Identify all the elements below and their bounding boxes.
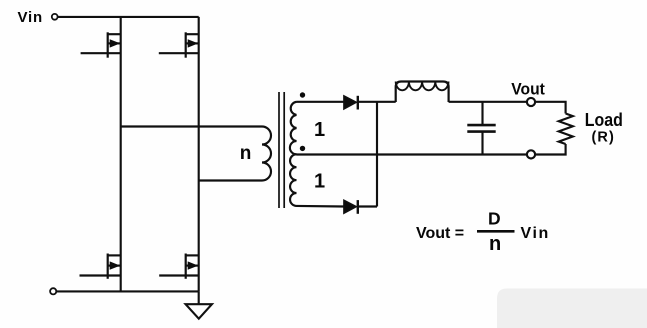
wire Vout top to load (535, 102, 566, 114)
transistor Q3 arrow (110, 261, 121, 269)
wire secondary top lead (297, 101, 344, 103)
svg-text:Load: Load (585, 109, 623, 130)
transistor Q3 bottom-left MOSFET gate plate (107, 254, 109, 279)
wire diode D1 output (358, 101, 396, 103)
capacitor C1 bottom plate (467, 130, 495, 133)
transformer T1 secondary top winding (290, 102, 297, 155)
wire right bridge leg (198, 17, 200, 292)
resistor R load zigzag (559, 114, 573, 145)
svg-text:n: n (240, 143, 252, 164)
transistor Q4 bottom-right MOSFET gate plate (185, 254, 187, 279)
diode D2 triangle (344, 200, 356, 213)
ground symbol (186, 304, 212, 319)
inductor L1 body (396, 82, 449, 103)
wire primary bottom lead (199, 179, 262, 181)
transistor Q1 top-left MOSFET gate plate (107, 32, 109, 57)
transistor Q4 gate lead and source stub (159, 274, 199, 276)
wire bottom rail (56, 290, 198, 292)
transformer phase dot bottom (300, 146, 305, 151)
transistor Q4 arrow (188, 261, 199, 269)
wire inductor to Vout (449, 101, 527, 103)
transistor Q2 middle stub (186, 42, 199, 44)
wire rectifier junction vertical (376, 102, 378, 207)
diode D1 triangle (344, 96, 356, 109)
transistor Q1 gate lead and source stub (81, 52, 121, 54)
node bottom-left terminal circle (50, 288, 56, 294)
transformer T1 secondary bottom winding (290, 154, 296, 206)
transformer phase dot top (300, 92, 305, 97)
transistor Q3 top stub (108, 254, 121, 256)
transistor Q2 top stub (186, 33, 199, 35)
capacitor C1 bottom lead (481, 132, 483, 155)
svg-text:Vout: Vout (511, 80, 545, 99)
svg-text:D: D (488, 208, 501, 228)
transistor Q3 middle stub (108, 265, 121, 267)
wire diode D2 output (358, 205, 377, 207)
svg-text:1: 1 (314, 170, 325, 192)
wire center tap rail (297, 153, 527, 155)
svg-text:Vin: Vin (18, 9, 43, 26)
wire primary top lead (121, 125, 262, 127)
diode D1 cathode bar (357, 96, 359, 110)
transistor Q4 top stub (186, 254, 199, 256)
node Vout top terminal circle (527, 98, 535, 106)
wire top rail from Vin to right leg (58, 16, 199, 18)
watermark gray box bottom-right (497, 289, 647, 328)
inductor L1 scallops (396, 82, 449, 91)
svg-text:(R): (R) (592, 130, 615, 146)
transistor Q1 top stub (108, 33, 121, 35)
transistor Q2 arrow (188, 39, 199, 47)
node Vout bottom terminal circle (527, 150, 535, 158)
wire load bottom (535, 144, 566, 155)
svg-text:Vin: Vin (521, 225, 550, 242)
formula fraction bar (477, 230, 515, 233)
svg-text:Vout =: Vout = (416, 225, 464, 242)
diode D2 cathode bar (357, 200, 359, 214)
wire left bridge leg (120, 17, 122, 292)
transformer T1 core (278, 92, 280, 208)
svg-text:n: n (489, 233, 501, 255)
wire ground stub (198, 291, 200, 304)
wire secondary bottom lead (297, 205, 344, 208)
capacitor C1 top lead (481, 102, 483, 125)
transistor Q1 middle stub (108, 42, 121, 44)
capacitor C1 top plate (467, 124, 495, 127)
transformer T1 primary winding (262, 127, 271, 181)
node Vin terminal circle (52, 14, 58, 20)
transistor Q4 middle stub (186, 265, 199, 267)
transistor Q2 gate lead and source stub (159, 52, 199, 54)
transistor Q3 gate lead and source stub (80, 274, 121, 276)
transistor Q1 arrow (110, 39, 121, 47)
transistor Q2 top-right MOSFET gate plate (185, 32, 187, 57)
svg-text:1: 1 (314, 119, 325, 141)
